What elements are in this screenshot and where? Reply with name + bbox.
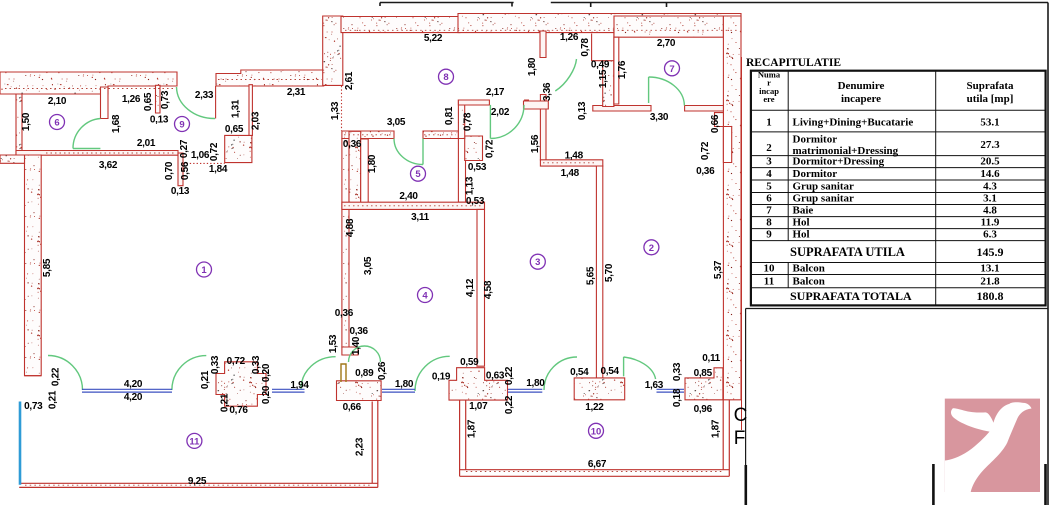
svg-text:1,94: 1,94: [290, 380, 309, 391]
svg-text:0,13: 0,13: [150, 115, 169, 126]
svg-text:Hol: Hol: [793, 216, 810, 228]
svg-text:0,18: 0,18: [672, 388, 683, 407]
exterior wall top band right part: [458, 14, 741, 33]
table column line 1: [787, 71, 789, 288]
svg-text:5,37: 5,37: [713, 260, 724, 279]
svg-text:21.8: 21.8: [980, 276, 1000, 288]
shaft wall vertical: [603, 61, 614, 107]
svg-text:incapere: incapere: [841, 93, 881, 105]
room 5 left wall thick part: [349, 131, 361, 209]
door arc room 6: [73, 119, 100, 149]
svg-text:4: 4: [766, 168, 772, 180]
room 5 bottom wall / room 4 top wall: [342, 202, 485, 209]
svg-text:5: 5: [766, 180, 772, 192]
svg-text:1,31: 1,31: [231, 99, 242, 118]
door leaf hol-room3: [489, 105, 491, 139]
svg-text:1,06: 1,06: [191, 150, 210, 161]
svg-text:0,72: 0,72: [227, 356, 246, 367]
svg-text:0,66: 0,66: [710, 114, 721, 133]
svg-text:1,22: 1,22: [585, 402, 604, 413]
svg-text:0,65: 0,65: [225, 124, 244, 135]
svg-text:0,72: 0,72: [700, 141, 711, 160]
svg-text:utila [mp]: utila [mp]: [967, 93, 1014, 105]
svg-text:0,11: 0,11: [702, 353, 720, 364]
svg-text:Dormitor: Dormitor: [793, 134, 838, 146]
corridor bottom wall right of room 7 door: [685, 106, 724, 112]
svg-text:9: 9: [179, 120, 184, 131]
svg-text:10: 10: [764, 263, 776, 275]
svg-text:2,23: 2,23: [355, 437, 366, 456]
room 8 number circle: [439, 69, 454, 84]
svg-text:1,26: 1,26: [122, 94, 141, 105]
double door arcs balcony 11: [349, 346, 381, 362]
svg-text:8: 8: [443, 72, 448, 83]
svg-text:0,53: 0,53: [466, 196, 485, 207]
window 1,94: [272, 389, 305, 392]
svg-text:0,89: 0,89: [355, 368, 374, 379]
dimension line in band 2,31: [218, 79, 322, 81]
svg-text:7: 7: [669, 64, 674, 75]
dimension line in top band: [345, 29, 738, 31]
svg-text:Baie: Baie: [793, 204, 814, 216]
svg-text:6: 6: [766, 192, 772, 204]
svg-text:1,56: 1,56: [530, 134, 541, 153]
svg-text:7: 7: [766, 204, 772, 216]
svg-text:180.8: 180.8: [977, 289, 1004, 303]
svg-text:1: 1: [766, 117, 772, 129]
dimension line in room5 bottom wall: [344, 205, 483, 207]
svg-text:1,40: 1,40: [351, 336, 362, 355]
svg-text:0,21: 0,21: [220, 393, 231, 412]
svg-text:1,53: 1,53: [328, 334, 339, 353]
room 5 top wall left part: [342, 131, 394, 139]
corner block bottom right: [685, 368, 723, 400]
svg-text:0,65: 0,65: [143, 92, 154, 111]
right wall small notch box: [715, 113, 724, 127]
svg-text:Denumire: Denumire: [838, 80, 885, 92]
dimension line in top-left band: [5, 88, 174, 90]
svg-text:6,67: 6,67: [588, 459, 607, 470]
svg-text:3,62: 3,62: [99, 160, 118, 171]
svg-text:1,13: 1,13: [464, 176, 475, 195]
wall below hol door 0,13: [524, 101, 549, 109]
svg-text:0,54: 0,54: [570, 367, 589, 378]
svg-text:SUPRAFATA UTILA: SUPRAFATA UTILA: [790, 245, 905, 259]
svg-text:1,48: 1,48: [561, 168, 580, 179]
svg-text:1,68: 1,68: [111, 114, 122, 133]
table red edge line: [741, 57, 743, 430]
room 5 left wall duct strip: [361, 139, 369, 203]
svg-text:0,81: 0,81: [444, 106, 455, 125]
svg-text:0,54: 0,54: [600, 366, 619, 377]
svg-text:3,05: 3,05: [363, 256, 374, 275]
balcony door arc room 3: [544, 357, 577, 390]
balcony door block right: [574, 378, 625, 400]
door arc room 7: [649, 77, 685, 106]
svg-text:5,22: 5,22: [424, 33, 443, 44]
svg-text:0,22: 0,22: [504, 395, 515, 414]
pillar right of room 5: [465, 136, 483, 161]
svg-text:Grup sanitar: Grup sanitar: [793, 180, 855, 192]
room 1 number circle: [197, 262, 212, 277]
exterior wall left side: [25, 155, 42, 376]
svg-text:SUPRAFATA TOTALA: SUPRAFATA TOTALA: [790, 289, 912, 303]
logo white dove with swoosh: [945, 402, 1032, 492]
title block thick lines: [746, 464, 1046, 505]
svg-text:Balcon: Balcon: [793, 276, 825, 288]
svg-text:9,25: 9,25: [188, 476, 207, 487]
door frame brown 0,89: [341, 364, 346, 382]
svg-text:8: 8: [766, 216, 772, 228]
dashed opening line entry: [183, 162, 225, 164]
table outer border: [751, 71, 1046, 306]
svg-text:0,22: 0,22: [51, 367, 62, 386]
svg-text:3: 3: [766, 156, 772, 168]
svg-text:6.3: 6.3: [983, 228, 997, 240]
svg-text:0,70: 0,70: [164, 161, 175, 180]
svg-text:Balcon: Balcon: [793, 263, 825, 275]
svg-text:1,80: 1,80: [367, 154, 378, 173]
svg-text:C: C: [734, 405, 748, 426]
balcony door block mid: [449, 368, 508, 400]
svg-text:1,80: 1,80: [527, 57, 538, 76]
dimension line in room2 top wall: [543, 162, 597, 164]
svg-text:1,63: 1,63: [645, 380, 664, 391]
balcony door arc room 1 left: [48, 356, 83, 391]
svg-text:2: 2: [766, 142, 772, 154]
door arc hol 8 right: [555, 59, 576, 91]
svg-text:3,05: 3,05: [387, 117, 406, 128]
svg-text:2,61: 2,61: [344, 71, 355, 90]
corridor bottom wall left of room 7 door: [593, 106, 651, 112]
svg-text:0,36: 0,36: [343, 139, 362, 150]
svg-text:13.1: 13.1: [980, 263, 999, 275]
svg-text:11: 11: [764, 276, 774, 288]
exterior wall band above room 7: [614, 16, 723, 37]
svg-text:0,33: 0,33: [210, 355, 221, 374]
rooms 6-9 bottom wall band: [16, 151, 178, 156]
svg-text:0,49: 0,49: [591, 60, 610, 71]
svg-text:0,22: 0,22: [504, 366, 515, 385]
svg-text:ere: ere: [763, 94, 774, 104]
svg-text:Dormitor: Dormitor: [793, 168, 838, 180]
svg-text:20.5: 20.5: [980, 156, 1000, 168]
svg-text:0,27: 0,27: [179, 139, 190, 158]
svg-text:0,78: 0,78: [580, 38, 591, 57]
svg-text:0,73: 0,73: [24, 401, 43, 412]
cross pillar: [216, 362, 266, 406]
svg-text:5,70: 5,70: [604, 263, 615, 282]
svg-text:0,66: 0,66: [343, 402, 362, 413]
svg-text:1,26: 1,26: [560, 32, 579, 43]
room 5 / room 4 left wall: [342, 139, 349, 348]
svg-text:0,13: 0,13: [577, 101, 588, 120]
svg-text:9: 9: [766, 228, 772, 240]
wall stub right of door 2,02: [525, 100, 529, 108]
room 5 number circle: [411, 166, 426, 181]
door leaf hol 9 entry: [215, 86, 217, 119]
dashed line top band notch: [538, 30, 550, 32]
window 1,80 right: [508, 389, 542, 392]
room 4 left wall jog 0,36: [342, 347, 358, 355]
svg-text:0,19: 0,19: [432, 372, 451, 383]
partition wall rooms 4/3: [477, 209, 485, 366]
door arc hol to room 3: [490, 105, 524, 139]
dimension line in rooms 6-9 bottom wall: [46, 152, 176, 154]
wall stub 0,65 in hol 9: [156, 85, 161, 113]
svg-text:Suprafata: Suprafata: [966, 80, 1014, 92]
balcony door arc room 1 right: [172, 356, 206, 390]
svg-text:1,84: 1,84: [209, 164, 228, 175]
svg-text:0,33: 0,33: [672, 362, 683, 381]
svg-text:2,02: 2,02: [491, 107, 510, 118]
svg-text:2,03: 2,03: [251, 111, 262, 130]
svg-text:53.1: 53.1: [980, 117, 999, 129]
svg-text:1,80: 1,80: [526, 378, 545, 389]
svg-text:0,36: 0,36: [349, 326, 368, 337]
svg-text:1,76: 1,76: [617, 60, 628, 79]
svg-text:1,15: 1,15: [598, 69, 609, 88]
room 5 right wall: [458, 139, 465, 203]
svg-text:2: 2: [649, 243, 654, 254]
dimension line in balcony 10 parapet: [466, 471, 722, 473]
room 3 number circle: [530, 254, 545, 269]
svg-text:1: 1: [201, 265, 207, 276]
room 7 number circle: [665, 61, 680, 76]
balcony 11 parapet: [19, 401, 378, 488]
left wall bottom end line: [25, 375, 42, 377]
partition wall rooms 3/2: [596, 166, 602, 379]
svg-text:3,11: 3,11: [411, 212, 429, 223]
svg-text:0,21: 0,21: [200, 370, 211, 389]
svg-text:11: 11: [189, 436, 200, 447]
svg-text:0,85: 0,85: [694, 368, 713, 379]
wall stub 0,70 below room 9: [178, 153, 183, 186]
svg-text:0,13: 0,13: [171, 186, 190, 197]
svg-text:1,50: 1,50: [21, 112, 32, 131]
balcony 10 parapet: [460, 400, 730, 477]
svg-text:0,63: 0,63: [486, 371, 505, 382]
dimension line in room5 top wall right: [424, 134, 456, 136]
svg-text:Hol: Hol: [793, 228, 810, 240]
door arc room 5: [394, 139, 423, 165]
svg-text:0,56: 0,56: [180, 161, 191, 180]
svg-text:11.9: 11.9: [981, 216, 1000, 228]
svg-text:145.9: 145.9: [977, 245, 1004, 259]
svg-text:0,36: 0,36: [696, 166, 715, 177]
svg-text:1,07: 1,07: [469, 401, 488, 412]
shaft wall step lines: [592, 31, 614, 107]
svg-text:0,76: 0,76: [229, 405, 248, 416]
svg-text:27.3: 27.3: [980, 139, 1000, 151]
svg-text:14.6: 14.6: [980, 168, 1000, 180]
room 6 left wall: [16, 94, 22, 157]
svg-text:RECAPITULATIE: RECAPITULATIE: [746, 57, 841, 69]
svg-text:2,17: 2,17: [486, 87, 505, 98]
svg-text:0,59: 0,59: [460, 357, 479, 368]
balcony door arc room 4: [415, 356, 450, 391]
wall band 2,31 entry: [216, 70, 324, 86]
svg-text:0,78: 0,78: [463, 112, 474, 131]
svg-text:3,36: 3,36: [542, 82, 553, 101]
table row lines: [751, 110, 1046, 287]
sheet frame top line: [380, 3, 1048, 505]
svg-text:0,73: 0,73: [160, 90, 171, 109]
exterior wall top band left part: [341, 17, 460, 33]
svg-text:4.8: 4.8: [983, 204, 997, 216]
svg-text:5: 5: [415, 169, 421, 180]
svg-text:10: 10: [591, 426, 602, 437]
svg-text:2,40: 2,40: [399, 191, 418, 202]
svg-text:1,80: 1,80: [395, 379, 414, 390]
svg-text:0,96: 0,96: [694, 404, 713, 415]
room 7 left wall: [614, 37, 619, 104]
title block frame: [746, 309, 1048, 505]
wall 3,36 between hol and room 3: [540, 95, 546, 161]
svg-text:0,72: 0,72: [484, 139, 495, 158]
svg-text:Living+Dining+Bucatarie: Living+Dining+Bucatarie: [793, 117, 914, 129]
svg-text:4,20: 4,20: [124, 379, 143, 390]
window 4,20 balcony 11: [82, 389, 172, 392]
svg-text:3,30: 3,30: [650, 112, 669, 123]
svg-text:4: 4: [422, 291, 428, 302]
door arc room 9 entry top: [177, 87, 216, 119]
dashed opening line hol8-corridor: [341, 86, 343, 131]
hol 8 bottom wall piece: [458, 100, 489, 105]
svg-text:5,85: 5,85: [42, 258, 53, 277]
svg-text:0,21: 0,21: [48, 390, 59, 409]
door leaf room 7: [648, 77, 650, 103]
balcony door arc room 2 left: [624, 357, 656, 379]
svg-text:2,01: 2,01: [137, 138, 156, 149]
room 11 number circle: [187, 433, 202, 448]
svg-text:1,33: 1,33: [330, 101, 341, 120]
dimension line in room5 top wall left: [344, 134, 393, 136]
svg-text:0,36: 0,36: [335, 308, 354, 319]
svg-text:3.1: 3.1: [983, 192, 997, 204]
svg-text:4,58: 4,58: [483, 280, 494, 299]
window 1,80 left: [382, 389, 415, 392]
svg-text:4.3: 4.3: [983, 180, 997, 192]
exterior wall column left of hol 8: [323, 16, 343, 85]
svg-text:2,10: 2,10: [48, 96, 67, 107]
entry pillar 1,84: [225, 135, 252, 162]
wall hol9/entry: [249, 85, 252, 136]
svg-text:2,33: 2,33: [195, 90, 214, 101]
svg-text:0,20: 0,20: [261, 363, 272, 382]
room 2 top wall: [540, 160, 602, 166]
exterior wall right side: [723, 16, 741, 400]
balcony door block left: [337, 381, 382, 401]
exterior wall left top corner: [0, 155, 25, 163]
svg-text:0,20: 0,20: [261, 385, 272, 404]
svg-text:0,53: 0,53: [468, 162, 487, 173]
room 4 number circle: [418, 288, 433, 303]
window 1,63: [657, 389, 685, 392]
right wall notch inner: [723, 127, 731, 163]
svg-text:F: F: [734, 428, 746, 449]
exterior wall top-left band: [0, 72, 177, 94]
hol 8 right wall upper: [540, 31, 546, 58]
wall piece above door hol-room3: [458, 100, 464, 139]
svg-text:1,87: 1,87: [467, 419, 478, 438]
room 10 number circle: [589, 423, 604, 438]
svg-text:Dormitor+Dressing: Dormitor+Dressing: [793, 156, 885, 168]
svg-text:2,31: 2,31: [287, 87, 306, 98]
room 9 number circle: [175, 117, 190, 132]
door leaf room 6: [73, 148, 100, 150]
svg-text:3: 3: [535, 257, 540, 268]
svg-text:0,26: 0,26: [377, 361, 388, 380]
room 2 number circle: [644, 240, 659, 255]
logo pink square: [945, 399, 1040, 492]
room 5 top wall right part: [423, 131, 458, 139]
door leaf balcony room 2: [623, 357, 625, 376]
svg-text:1,48: 1,48: [565, 150, 584, 161]
balcony 11 left rail blue: [19, 402, 22, 485]
balcony door arc room 1 mid-right: [301, 357, 336, 389]
svg-text:0,72: 0,72: [209, 142, 220, 161]
svg-text:4,12: 4,12: [465, 278, 476, 297]
svg-text:4,20: 4,20: [124, 392, 143, 403]
svg-text:5,65: 5,65: [586, 266, 597, 285]
svg-text:1,87: 1,87: [711, 419, 722, 438]
partition wall rooms 6/9: [101, 87, 109, 119]
room 6 number circle: [50, 115, 65, 130]
table column line 2: [935, 71, 937, 306]
svg-text:Grup sanitar: Grup sanitar: [793, 192, 855, 204]
svg-text:6: 6: [54, 118, 59, 129]
dimension line in balcony 11 parapet: [25, 484, 371, 486]
door leaf room 5: [422, 139, 424, 165]
svg-text:4,88: 4,88: [345, 218, 356, 237]
svg-text:2,70: 2,70: [657, 38, 676, 49]
